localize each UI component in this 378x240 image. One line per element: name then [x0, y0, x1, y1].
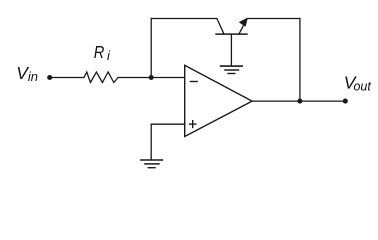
node A inverting-input junction: [149, 75, 154, 80]
wire op-amp output to Vout: [252, 100, 345, 102]
wire noninverting input vertical: [150, 124, 152, 159]
wire Q1 emitter to right vertical: [247, 18, 300, 20]
transistor Q1: [216, 19, 247, 66]
input terminal Vin: [47, 75, 52, 80]
Q1 base bar: [216, 33, 247, 35]
wire resistor to node A: [118, 77, 151, 79]
ground at noninverting input: [140, 160, 163, 168]
svg-text:i: i: [107, 48, 111, 63]
op-amp plus sign: [189, 120, 197, 128]
resistor Ri: [84, 72, 118, 83]
Q1 collector lead: [217, 19, 224, 35]
Q1 emitter lead with arrow: [239, 19, 247, 34]
op-amp minus sign: [190, 81, 198, 83]
wire right vertical feedback to node B: [299, 19, 301, 102]
Q1 base lead: [230, 34, 232, 65]
wire top horizontal to Q1 collector: [151, 18, 217, 20]
output terminal Vout: [343, 99, 348, 104]
wire Vin to resistor: [50, 77, 84, 79]
wire node A to op-amp inverting input: [151, 77, 185, 79]
svg-text:Vout: Vout: [344, 72, 372, 93]
svg-text:Vin: Vin: [16, 63, 38, 84]
op-amp U1: [185, 65, 252, 136]
wire feedback left vertical: [150, 19, 152, 78]
svg-text:R: R: [94, 42, 105, 62]
ground at Q1 base: [220, 66, 243, 73]
wire noninverting input horizontal: [151, 123, 185, 125]
node B output junction: [297, 99, 302, 104]
